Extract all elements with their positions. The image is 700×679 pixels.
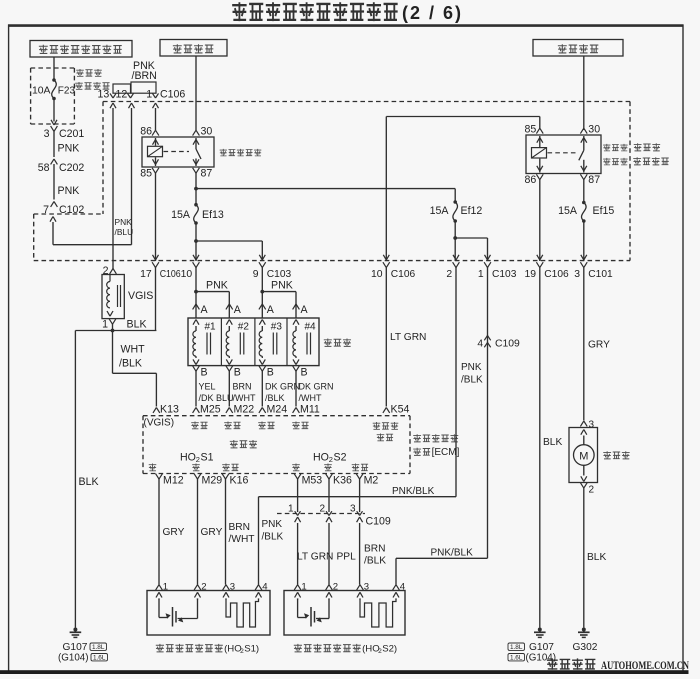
svg-text:17: 17	[140, 269, 152, 280]
svg-text:A: A	[301, 304, 309, 316]
svg-text:K36: K36	[333, 475, 352, 487]
svg-text:WHT: WHT	[121, 344, 146, 356]
svg-text:19: 19	[524, 269, 536, 280]
svg-text:/BRN: /BRN	[132, 70, 157, 82]
svg-text:DK GRN: DK GRN	[299, 382, 334, 392]
svg-text:1.8L: 1.8L	[92, 644, 105, 651]
svg-text:M: M	[579, 451, 588, 463]
svg-text:C106: C106	[544, 269, 569, 280]
svg-text:2: 2	[589, 485, 595, 496]
svg-text:/BLK: /BLK	[262, 532, 284, 543]
svg-text:(2 / 6): (2 / 6)	[402, 3, 463, 23]
svg-text:C106: C106	[160, 89, 185, 101]
svg-text:C103: C103	[492, 269, 517, 280]
svg-text:BLK: BLK	[127, 319, 147, 331]
svg-text:/BLK: /BLK	[461, 375, 483, 386]
svg-text:C202: C202	[59, 162, 84, 174]
svg-text:/BLU: /BLU	[115, 227, 134, 237]
svg-text:4: 4	[400, 582, 406, 593]
svg-text:2: 2	[329, 455, 333, 464]
svg-text:PPL: PPL	[337, 552, 357, 563]
svg-text:C101: C101	[588, 269, 613, 280]
svg-text:#2: #2	[238, 322, 250, 333]
svg-text:58: 58	[38, 162, 50, 174]
svg-text:G107: G107	[63, 642, 88, 653]
svg-text:#3: #3	[271, 322, 283, 333]
svg-text:M24: M24	[267, 404, 288, 416]
svg-text:30: 30	[588, 124, 600, 136]
svg-text:12: 12	[116, 89, 128, 101]
svg-text:PNK: PNK	[58, 143, 80, 155]
svg-text:10A: 10A	[32, 86, 51, 97]
svg-text:2: 2	[103, 265, 109, 277]
svg-text:3: 3	[44, 128, 50, 140]
svg-text:K54: K54	[391, 404, 410, 416]
svg-text:M11: M11	[300, 404, 320, 416]
svg-text:M25: M25	[200, 404, 221, 416]
svg-text:BRN: BRN	[233, 382, 252, 392]
svg-text:PNK: PNK	[115, 217, 133, 227]
svg-text:87: 87	[201, 168, 213, 180]
svg-text:M22: M22	[234, 404, 255, 416]
svg-text:1: 1	[163, 582, 168, 593]
svg-text:M12: M12	[163, 475, 184, 487]
svg-text:BRN: BRN	[229, 522, 251, 533]
svg-text:30: 30	[201, 126, 213, 138]
svg-text:/WHT: /WHT	[299, 393, 322, 403]
svg-text:M2: M2	[364, 475, 379, 487]
svg-text:86: 86	[525, 174, 537, 186]
svg-text:PNK/BLK: PNK/BLK	[431, 548, 474, 559]
svg-text:87: 87	[588, 174, 600, 186]
svg-text:4: 4	[262, 582, 268, 593]
svg-text:4: 4	[477, 339, 483, 350]
svg-text:/BLK: /BLK	[364, 556, 386, 567]
svg-text:F23: F23	[58, 86, 76, 97]
svg-text:G302: G302	[573, 642, 598, 653]
svg-text:PNK/BLK: PNK/BLK	[392, 486, 435, 497]
svg-text:(HO: (HO	[362, 644, 380, 655]
svg-text:GRY: GRY	[201, 527, 223, 538]
svg-text:BRN: BRN	[364, 544, 386, 555]
svg-text:S2): S2)	[382, 644, 397, 655]
svg-text:2: 2	[319, 504, 325, 515]
svg-text:/WHT: /WHT	[233, 393, 256, 403]
svg-text:1: 1	[288, 504, 294, 515]
svg-text:YEL: YEL	[199, 382, 216, 392]
svg-text:LT GRN: LT GRN	[297, 552, 333, 563]
svg-text:S1: S1	[201, 452, 214, 464]
svg-text:1: 1	[478, 269, 484, 280]
svg-text:C109: C109	[366, 516, 391, 528]
svg-text:/DK BLU: /DK BLU	[199, 393, 234, 403]
svg-text:S1): S1)	[244, 644, 259, 655]
svg-text:A: A	[267, 304, 275, 316]
svg-text:2: 2	[333, 582, 338, 593]
svg-text:M29: M29	[202, 475, 223, 487]
svg-text:86: 86	[140, 126, 152, 138]
svg-text:PNK: PNK	[58, 185, 80, 197]
svg-text:(G104): (G104)	[58, 653, 89, 664]
svg-text:85: 85	[525, 124, 537, 136]
svg-text:PNK: PNK	[262, 519, 283, 530]
svg-text:1: 1	[301, 582, 306, 593]
svg-text:HO: HO	[180, 452, 196, 464]
svg-text:GRY: GRY	[163, 527, 185, 538]
svg-text:A: A	[201, 304, 209, 316]
svg-text:Ef15: Ef15	[593, 205, 615, 217]
svg-text:1.6L: 1.6L	[93, 655, 106, 662]
svg-text:Ef13: Ef13	[202, 209, 224, 221]
svg-text:BLK: BLK	[543, 437, 562, 448]
svg-text:1.8L: 1.8L	[510, 644, 523, 651]
svg-text:#4: #4	[305, 322, 317, 333]
svg-text:HO: HO	[313, 452, 329, 464]
svg-text:B: B	[201, 367, 208, 379]
svg-text:BLK: BLK	[587, 552, 606, 563]
svg-text:15A: 15A	[171, 209, 191, 221]
svg-text:#1: #1	[205, 322, 217, 333]
svg-text:PNK: PNK	[461, 362, 482, 373]
svg-text:C106: C106	[160, 269, 181, 280]
svg-text:GRY: GRY	[588, 340, 610, 351]
svg-text:(G104): (G104)	[526, 653, 557, 664]
svg-text:3: 3	[574, 269, 580, 280]
svg-text:10: 10	[371, 269, 383, 280]
svg-text:AUTOHOME.COM.CN: AUTOHOME.COM.CN	[601, 660, 690, 672]
svg-text:1: 1	[102, 319, 108, 331]
svg-text:1.6L: 1.6L	[510, 655, 523, 662]
svg-text:G107: G107	[529, 642, 554, 653]
svg-text:10: 10	[181, 269, 193, 280]
svg-text:85: 85	[140, 168, 152, 180]
svg-text:DK GRN: DK GRN	[265, 382, 300, 392]
svg-text:2: 2	[201, 582, 206, 593]
svg-text:(HO: (HO	[224, 644, 242, 655]
svg-text:13: 13	[98, 89, 110, 101]
svg-text:/BLK: /BLK	[119, 358, 142, 370]
svg-text:15A: 15A	[430, 205, 450, 217]
svg-text:2: 2	[446, 269, 452, 280]
svg-text:C106: C106	[391, 269, 416, 280]
svg-text:PNK: PNK	[271, 280, 293, 292]
svg-text:C201: C201	[59, 128, 84, 140]
svg-text:S2: S2	[334, 452, 347, 464]
svg-text:LT GRN: LT GRN	[390, 332, 426, 343]
svg-text:K16: K16	[230, 475, 249, 487]
svg-text:K13: K13	[160, 404, 179, 416]
svg-text:VGIS: VGIS	[128, 290, 153, 302]
svg-text:B: B	[267, 367, 274, 379]
svg-text:Ef12: Ef12	[461, 205, 483, 217]
svg-text:1: 1	[146, 89, 152, 101]
svg-text:3: 3	[589, 420, 595, 431]
svg-text:/WHT: /WHT	[229, 534, 255, 545]
svg-text:(VGIS): (VGIS)	[144, 418, 175, 429]
svg-text:PNK: PNK	[206, 280, 228, 292]
svg-text:15A: 15A	[558, 205, 578, 217]
svg-text:C109: C109	[495, 339, 520, 350]
svg-text:A: A	[234, 304, 242, 316]
svg-text:B: B	[234, 367, 241, 379]
svg-text:B: B	[301, 367, 308, 379]
svg-text:3: 3	[230, 582, 235, 593]
svg-text:M53: M53	[302, 475, 323, 487]
svg-text:/BLK: /BLK	[265, 393, 285, 403]
svg-text:9: 9	[253, 269, 259, 280]
svg-text:2: 2	[196, 455, 200, 464]
svg-text:3: 3	[350, 504, 356, 515]
svg-text:3: 3	[364, 582, 369, 593]
svg-text:C103: C103	[267, 269, 292, 280]
svg-text:BLK: BLK	[79, 476, 99, 488]
